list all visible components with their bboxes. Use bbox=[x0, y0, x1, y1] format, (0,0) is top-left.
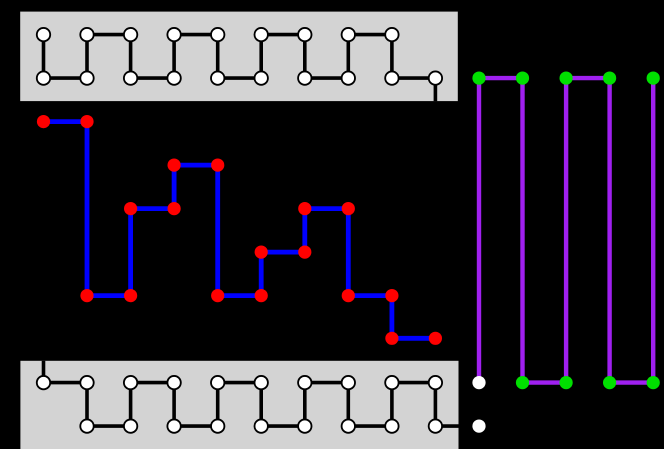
node red 1 (col1,row2) bbox=[80, 115, 93, 128]
node bottom band row8 col1 bbox=[80, 376, 93, 389]
node red 8 (col4,row6) bbox=[211, 289, 224, 302]
node top band row0 col5 bbox=[255, 28, 268, 41]
node bottom band row9 col9 bbox=[429, 419, 442, 432]
node red 16 (col8,row7) bbox=[385, 332, 398, 345]
node top band row1 col7 bbox=[342, 71, 355, 84]
node top band row0 col6 bbox=[298, 28, 311, 41]
node bottom band row8 col5 bbox=[255, 376, 268, 389]
node top band row1 col4 bbox=[211, 71, 224, 84]
node top band row1 col8 bbox=[385, 71, 398, 84]
node top band row0 col7 bbox=[342, 28, 355, 41]
node green bottom col12 bbox=[560, 376, 573, 389]
node red 9 (col5,row6) bbox=[255, 289, 268, 302]
wire blue staircase path bbox=[44, 122, 436, 339]
node bottom band row8 col6 bbox=[298, 376, 311, 389]
node bottom band row8 col2 bbox=[124, 376, 137, 389]
node top band row1 col0 bbox=[37, 71, 50, 84]
node green bottom col11 bbox=[516, 376, 529, 389]
node bottom band row8 col3 bbox=[167, 376, 180, 389]
node top band row1 col5 bbox=[255, 71, 268, 84]
node red 10 (col5,row5) bbox=[255, 246, 268, 259]
node bottom band row8 col7 bbox=[342, 376, 355, 389]
node red 2 (col1,row6) bbox=[80, 289, 93, 302]
node top band row0 col0 bbox=[37, 28, 50, 41]
node green top col11 bbox=[516, 72, 529, 85]
node top band row1 col2 bbox=[124, 71, 137, 84]
node bottom band row9 col1 bbox=[80, 419, 93, 432]
node bottom band row9 col2 bbox=[124, 419, 137, 432]
node green top col14 bbox=[647, 72, 660, 85]
node red 0 (col0,row2) bbox=[37, 115, 50, 128]
node bottom band row9 col3 bbox=[167, 419, 180, 432]
node red 12 (col6,row4) bbox=[298, 202, 311, 215]
node red 6 (col3,row3) bbox=[168, 159, 181, 172]
node red 4 (col2,row4) bbox=[124, 202, 137, 215]
node red 13 (col7,row4) bbox=[342, 202, 355, 215]
node bottom band row9 col4 bbox=[211, 419, 224, 432]
node bottom band row9 col8 bbox=[385, 419, 398, 432]
node white isolated bbox=[472, 420, 485, 433]
node top band row1 col6 bbox=[298, 71, 311, 84]
node bottom band row8 col8 bbox=[385, 376, 398, 389]
wire bottom band zigzag path bbox=[44, 361, 459, 426]
node red 5 (col3,row4) bbox=[168, 202, 181, 215]
node top band row0 col4 bbox=[211, 28, 224, 41]
node bottom band row8 col4 bbox=[211, 376, 224, 389]
node top band row0 col3 bbox=[167, 28, 180, 41]
node red 15 (col8,row6) bbox=[385, 289, 398, 302]
node green top col13 bbox=[603, 72, 616, 85]
wire top band zigzag path bbox=[44, 35, 436, 102]
node red 7 (col4,row3) bbox=[211, 159, 224, 172]
node bottom band row9 col5 bbox=[255, 419, 268, 432]
node top band row1 col9 bbox=[429, 71, 442, 84]
node bottom band row8 col9 bbox=[429, 376, 442, 389]
node red 17 (col9,row7) bbox=[429, 332, 442, 345]
node green bottom col13 bbox=[603, 376, 616, 389]
node red 3 (col2,row6) bbox=[124, 289, 137, 302]
node red 11 (col6,row5) bbox=[298, 246, 311, 259]
node green top col12 bbox=[560, 72, 573, 85]
node red 14 (col7,row6) bbox=[342, 289, 355, 302]
node top band row0 col1 bbox=[80, 28, 93, 41]
top gray band bbox=[20, 12, 458, 102]
node top band row1 col1 bbox=[80, 71, 93, 84]
node top band row0 col2 bbox=[124, 28, 137, 41]
node top band row1 col3 bbox=[167, 71, 180, 84]
node bottom band row9 col7 bbox=[342, 419, 355, 432]
node green bottom col14 bbox=[647, 376, 660, 389]
bottom gray band bbox=[20, 361, 458, 449]
node bottom band row9 col6 bbox=[298, 419, 311, 432]
wire purple serpentine path bbox=[479, 78, 653, 383]
node green top col10 bbox=[472, 72, 485, 85]
node top band row0 col8 bbox=[385, 28, 398, 41]
node white serpentine start bbox=[472, 376, 485, 389]
node bottom band row8 col0 bbox=[37, 376, 50, 389]
